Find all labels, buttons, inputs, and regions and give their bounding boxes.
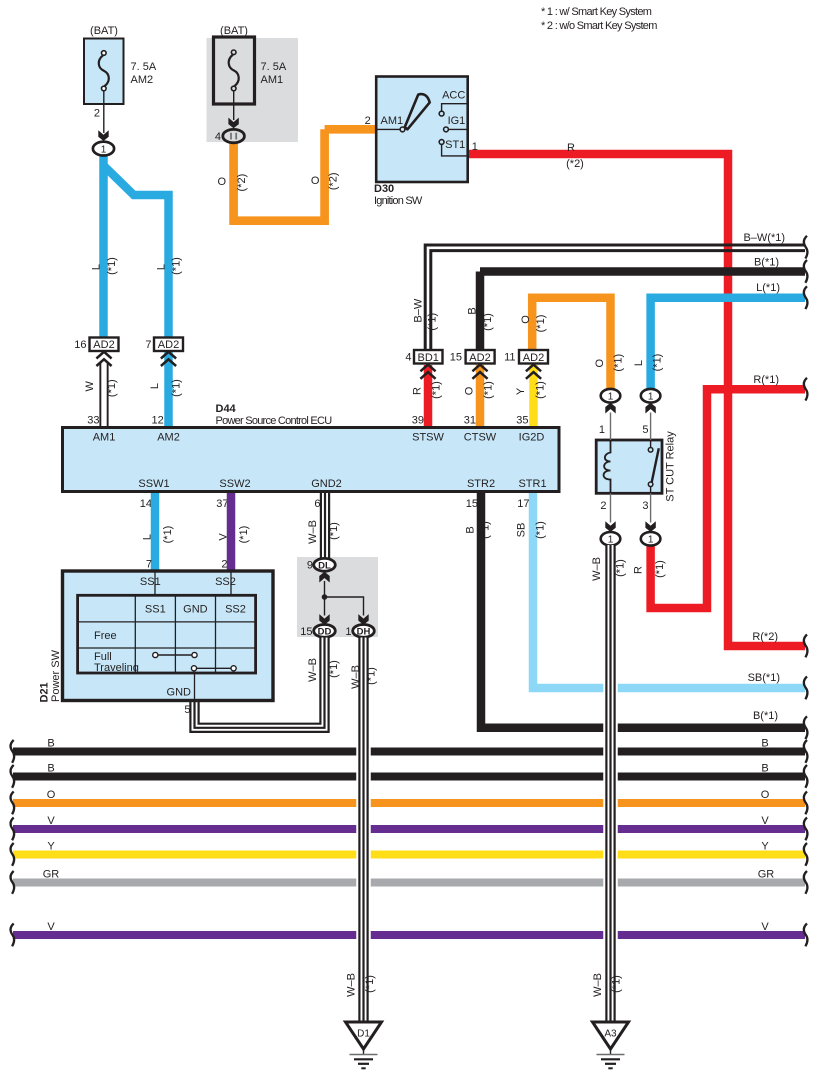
power switch D21 box	[39, 571, 274, 716]
wire L *1 : blue horizontal to right edge, down to relay node 5	[633, 282, 807, 389]
svg-text:AD2: AD2	[158, 339, 179, 351]
svg-text:(*1): (*1)	[106, 257, 118, 275]
svg-text:(*1): (*1)	[364, 975, 376, 993]
svg-text:4: 4	[215, 131, 221, 143]
svg-text:7. 5A: 7. 5A	[131, 61, 157, 73]
contact state table	[78, 595, 256, 673]
svg-text:DL: DL	[318, 560, 331, 571]
wire O *2 : orange from node II down, right, up to ignition AM1	[218, 129, 377, 225]
ignition key lever	[405, 94, 430, 129]
svg-text:7: 7	[146, 559, 152, 571]
svg-text:2: 2	[94, 108, 100, 120]
ECU D44 box : Power Source Control ECU	[63, 403, 560, 492]
svg-text:2: 2	[600, 500, 606, 512]
svg-text:ST1: ST1	[445, 139, 465, 151]
svg-text:(*1): (*1)	[328, 660, 340, 678]
svg-text:1: 1	[608, 535, 614, 546]
svg-text:DD: DD	[318, 626, 332, 637]
svg-text:W–B: W–B	[307, 520, 319, 544]
svg-text:BD1: BD1	[417, 352, 438, 364]
svg-text:1: 1	[472, 141, 478, 153]
svg-text:SB(*1): SB(*1)	[748, 672, 780, 684]
wire W-B *1 : GND2 from ECU to junction DL	[307, 493, 340, 558]
wire W-B *1 : from DD down, left to power SW GND pin 5	[195, 638, 341, 728]
svg-text:V: V	[218, 533, 230, 541]
svg-text:(*1): (*1)	[238, 526, 250, 544]
wire W *1 : white (hollow) from connector 16 AD2 to ECU AM1	[84, 362, 118, 428]
svg-text:O: O	[47, 789, 56, 801]
svg-text:33: 33	[87, 415, 99, 427]
bus wire Y	[10, 841, 807, 866]
svg-text:O: O	[218, 176, 227, 188]
junction connector DH	[345, 625, 374, 638]
wire O *1 : orange from connector AD2(11) up, right, down to relay node 1	[520, 298, 624, 389]
bus wire GR	[10, 869, 807, 894]
svg-text:O: O	[311, 175, 320, 187]
svg-text:O: O	[761, 789, 770, 801]
arrow into DL	[319, 572, 329, 583]
svg-text:D44: D44	[216, 403, 237, 415]
svg-text:4: 4	[405, 352, 411, 364]
svg-text:(*2): (*2)	[327, 172, 339, 190]
wire L : blue branch from node 1 to connector 7 AD2	[104, 166, 169, 340]
svg-text:GR: GR	[758, 869, 775, 881]
gray background block behind fuse AM1	[207, 38, 299, 142]
svg-text:B(*1): B(*1)	[753, 710, 778, 722]
svg-text:1: 1	[345, 626, 351, 638]
svg-text:SS1: SS1	[140, 576, 161, 588]
junction connector DD	[300, 625, 335, 638]
svg-text:5: 5	[642, 424, 648, 436]
svg-text:V: V	[761, 815, 769, 827]
wire R *2 : thick red from ignition ST1 right, down, to right edge	[468, 142, 808, 657]
svg-text:SS2: SS2	[225, 604, 246, 616]
svg-text:Y: Y	[761, 841, 769, 853]
svg-text:SB: SB	[516, 523, 528, 538]
svg-text:GND: GND	[183, 604, 208, 616]
ignition switch D30	[365, 77, 478, 208]
svg-text:AD2: AD2	[93, 339, 114, 351]
node 1 below fuse AM2	[93, 142, 114, 156]
node 1 below relay pin 2	[601, 532, 621, 546]
svg-text:V: V	[761, 921, 769, 933]
wire W-B *1 : from DH down to ground D1 (crosses buses)	[345, 638, 377, 1023]
svg-text:37: 37	[216, 498, 228, 510]
wire B *1 (lower) : black from ECU STR2 down and right to edge	[465, 492, 808, 740]
wire V *1 : violet SSW2 from ECU to power SW SS2	[218, 493, 251, 571]
svg-text:O: O	[464, 386, 476, 395]
svg-text:GND: GND	[167, 687, 192, 699]
connector 7 AD2	[145, 338, 183, 367]
svg-text:(*1): (*1)	[615, 559, 627, 577]
svg-text:IG1: IG1	[448, 115, 466, 127]
junction wiring between DL, DD, DH	[322, 581, 364, 616]
svg-text:(*1): (*1)	[366, 667, 378, 685]
svg-text:(*1): (*1)	[654, 560, 666, 578]
wire B-W *1 : black w/ white stripe, from connector BD1 up and right	[412, 232, 807, 351]
svg-text:L(*1): L(*1)	[756, 282, 780, 294]
svg-text:1: 1	[648, 535, 654, 546]
svg-text:STR1: STR1	[518, 478, 546, 490]
svg-text:STR2: STR2	[467, 478, 495, 490]
svg-text:(*1): (*1)	[106, 379, 118, 397]
svg-text:1: 1	[599, 424, 605, 436]
bus wire V	[10, 815, 807, 840]
svg-text:L: L	[149, 383, 161, 389]
wire R *1 : red from connector BD1 to ECU STSW	[412, 365, 443, 428]
gray background block behind DL/DD/DH junction connectors	[297, 557, 378, 637]
svg-text:Power Source Control ECU: Power Source Control ECU	[216, 415, 333, 427]
svg-text:W: W	[84, 380, 96, 391]
relay coil	[604, 440, 611, 493]
svg-text:GR: GR	[43, 869, 60, 881]
svg-text:W–B: W–B	[350, 665, 362, 689]
svg-text:ACC: ACC	[442, 90, 465, 102]
svg-text:3: 3	[642, 500, 648, 512]
svg-text:(*1): (*1)	[483, 381, 495, 399]
svg-text:1: 1	[648, 392, 654, 403]
junction connector DL	[307, 558, 335, 571]
svg-text:ST CUT Relay: ST CUT Relay	[665, 431, 677, 502]
svg-text:Ignition SW: Ignition SW	[374, 195, 423, 207]
svg-text:GND2: GND2	[311, 478, 342, 490]
svg-text:(*1): (*1)	[328, 522, 340, 540]
svg-text:SSW1: SSW1	[138, 478, 169, 490]
svg-text:AM1: AM1	[381, 115, 404, 127]
svg-text:Y: Y	[515, 387, 527, 395]
svg-text:D30: D30	[374, 183, 394, 195]
wire B *1 : solid black from connector AD2(15) up and right	[467, 257, 808, 351]
svg-text:CTSW: CTSW	[464, 432, 497, 444]
svg-text:14: 14	[140, 498, 152, 510]
svg-text:IG2D: IG2D	[519, 432, 545, 444]
wire SB *1 : light blue from ECU STR1 down and right to edge	[516, 492, 808, 700]
svg-text:R: R	[567, 142, 575, 154]
svg-text:Free: Free	[94, 630, 117, 642]
fuse 7.5A AM1 (on gray block)	[214, 25, 287, 143]
svg-text:1: 1	[608, 392, 614, 403]
svg-text:AD2: AD2	[469, 352, 490, 364]
svg-text:* 2 : w/o Smart Key System: * 2 : w/o Smart Key System	[541, 20, 657, 32]
svg-text:L: L	[142, 534, 154, 540]
svg-text:L: L	[91, 264, 103, 270]
connector 4 BD1	[405, 350, 442, 379]
svg-text:DH: DH	[357, 626, 371, 637]
svg-text:B: B	[761, 738, 768, 750]
svg-text:11: 11	[504, 352, 515, 364]
svg-text:O: O	[594, 358, 606, 367]
svg-text:15: 15	[300, 626, 312, 638]
svg-text:B(*1): B(*1)	[754, 257, 779, 269]
svg-text:(*1): (*1)	[652, 354, 664, 372]
wire L : blue from node 1 to connector 16 AD2	[99, 155, 108, 339]
wire W-B *1 : from relay node 2 down to ground A3 (crosses buses)	[591, 545, 627, 1022]
svg-text:(*1): (*1)	[431, 381, 443, 399]
svg-text:B: B	[761, 763, 768, 775]
svg-text:O: O	[520, 315, 532, 324]
connector 11 AD2	[504, 350, 548, 379]
svg-text:9: 9	[307, 560, 313, 572]
svg-text:L: L	[156, 264, 168, 270]
svg-text:(*1): (*1)	[535, 521, 547, 539]
relay pin 5 lead	[650, 413, 652, 441]
svg-text:2: 2	[221, 559, 227, 571]
relay pin 3 lead	[650, 493, 652, 522]
svg-text:B–W(*1): B–W(*1)	[743, 232, 785, 244]
relay pin 1 lead	[610, 413, 612, 441]
svg-text:(*2): (*2)	[566, 158, 584, 170]
svg-text:16: 16	[74, 339, 86, 351]
fuse 7.5A AM2	[84, 25, 157, 141]
svg-text:(*1): (*1)	[427, 313, 439, 331]
svg-text:SS1: SS1	[145, 604, 166, 616]
node II below fuse AM1	[223, 129, 245, 142]
contact links (Full Traveling row)	[155, 654, 194, 656]
svg-text:(*1): (*1)	[611, 975, 623, 993]
svg-text:* 1 : w/ Smart Key System: * 1 : w/ Smart Key System	[541, 6, 652, 18]
svg-text:(*1): (*1)	[170, 379, 182, 397]
svg-text:(BAT): (BAT)	[90, 25, 118, 37]
bus wire V (bottom)	[10, 921, 807, 946]
connector 16 AD2	[74, 338, 118, 367]
ground D1	[346, 1022, 382, 1068]
svg-text:(*1): (*1)	[480, 521, 492, 539]
bus wire O	[10, 789, 807, 814]
connector 15 AD2	[450, 350, 495, 379]
svg-text:39: 39	[412, 415, 424, 427]
svg-text:6: 6	[314, 498, 320, 510]
svg-text:W–B: W–B	[345, 973, 357, 997]
node 1 below relay pin 3	[641, 532, 661, 546]
svg-text:B: B	[465, 526, 477, 533]
svg-text:AM2: AM2	[157, 432, 180, 444]
svg-text:B: B	[47, 763, 54, 775]
bus wire B (row 1)	[10, 738, 807, 763]
svg-text:15: 15	[450, 352, 462, 364]
svg-text:R(*1): R(*1)	[753, 374, 779, 386]
svg-text:Traveling: Traveling	[94, 662, 139, 674]
svg-text:12: 12	[152, 415, 164, 427]
svg-text:1: 1	[101, 144, 107, 155]
relay switch contact	[648, 448, 653, 453]
svg-text:SS2: SS2	[215, 576, 236, 588]
wire L *1 : blue from connector 7 AD2 to ECU AM2	[149, 352, 182, 428]
svg-text:(*1): (*1)	[171, 257, 183, 275]
wire Y *1 : yellow from connector AD2(11) to ECU IG2D	[515, 365, 547, 428]
svg-text:SSW2: SSW2	[219, 478, 250, 490]
relay pin 2 lead	[610, 493, 612, 522]
GND pin lead inside box	[194, 673, 196, 701]
svg-text:B–W: B–W	[412, 298, 424, 322]
arrow into DD	[319, 614, 329, 625]
svg-text:Power SW: Power SW	[50, 649, 62, 702]
svg-text:7: 7	[145, 339, 151, 351]
ST CUT Relay box	[596, 431, 677, 502]
node 1 above relay pin 5	[641, 389, 661, 403]
svg-text:R: R	[633, 566, 645, 574]
svg-text:AM1: AM1	[261, 74, 284, 86]
wire O *1 : orange from connector AD2(15... to ECU CTSW	[464, 365, 495, 428]
svg-text:(BAT): (BAT)	[220, 25, 248, 37]
svg-text:AD2: AD2	[523, 352, 544, 364]
svg-text:D21: D21	[39, 682, 51, 702]
svg-text:(*1): (*1)	[162, 526, 174, 544]
svg-text:15: 15	[466, 498, 478, 510]
svg-text:(*1): (*1)	[612, 354, 624, 372]
svg-text:R(*2): R(*2)	[752, 631, 778, 643]
svg-text:W–B: W–B	[307, 658, 319, 682]
svg-text:(*1): (*1)	[535, 381, 547, 399]
svg-text:17: 17	[517, 498, 529, 510]
svg-text:W–B: W–B	[592, 973, 604, 997]
svg-text:W–B: W–B	[591, 557, 603, 581]
svg-text:AM2: AM2	[131, 74, 154, 86]
svg-text:(*2): (*2)	[236, 174, 248, 192]
ground A3	[593, 1022, 629, 1068]
svg-text:STSW: STSW	[412, 432, 444, 444]
svg-text:(*1): (*1)	[535, 315, 547, 333]
svg-text:35: 35	[516, 415, 528, 427]
svg-text:V: V	[47, 921, 55, 933]
svg-text:7. 5A: 7. 5A	[261, 61, 287, 73]
svg-text:V: V	[47, 815, 55, 827]
svg-text:31: 31	[464, 415, 476, 427]
svg-text:2: 2	[365, 115, 371, 127]
svg-text:L: L	[633, 360, 645, 366]
wire R *1 : red from relay pin3 node down, left jog, up, right to edge	[633, 374, 808, 608]
svg-text:Y: Y	[47, 841, 55, 853]
svg-text:B: B	[47, 738, 54, 750]
node 1 above relay pin 1	[601, 389, 621, 403]
svg-text:5: 5	[184, 704, 190, 716]
bus wire B (row 2)	[10, 763, 807, 788]
arrow into DH	[358, 614, 368, 625]
svg-text:B: B	[467, 307, 479, 314]
svg-text:D1: D1	[357, 1029, 370, 1040]
svg-text:R: R	[412, 387, 424, 395]
wire L *1 : blue SSW1 from ECU to power SW SS1	[142, 493, 175, 571]
svg-text:A3: A3	[604, 1029, 617, 1040]
svg-text:(*1): (*1)	[482, 313, 494, 331]
svg-text:AM1: AM1	[93, 432, 116, 444]
